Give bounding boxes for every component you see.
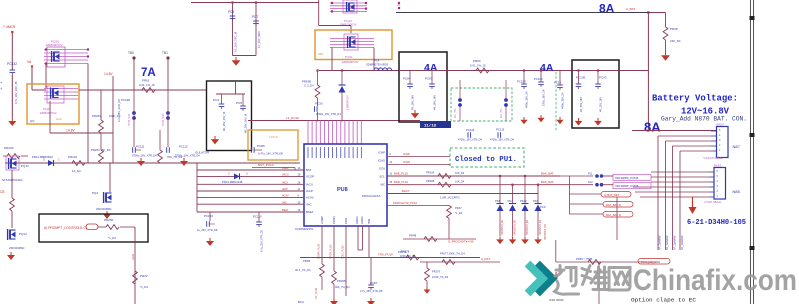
IC name PU8 [337, 187, 348, 193]
svg-text:NF_DaN/AW: NF_DaN/AW [666, 235, 669, 250]
label regulator [195, 151, 210, 155]
svg-text:NF_DaN/AW: NF_DaN/AW [659, 235, 662, 250]
svg-text:4.7u_16V_ACR_D5: 4.7u_16V_ACR_D5 [117, 99, 121, 122]
svg-text:PU8: PU8 [337, 187, 348, 193]
ground [520, 117, 527, 124]
diode PD12 [520, 175, 529, 236]
ground [411, 110, 419, 118]
wire [109, 163, 111, 192]
svg-text:HDD BMMP_OUT1B: HDD BMMP_OUT1B [615, 185, 639, 188]
svg-text:PC106: PC106 [534, 77, 543, 81]
svg-text:VAC: VAC [282, 201, 287, 204]
watermark xunwei glyphs [555, 266, 631, 295]
svg-text:1R0u_16V_D4: 1R0u_16V_D4 [543, 89, 546, 106]
svg-text:EMB09P03V: EMB09P03V [342, 60, 359, 64]
wire [197, 209, 304, 212]
svg-text:BAK_BAT 4): BAK_BAT 4) [606, 213, 621, 217]
wire [619, 70, 648, 72]
wire [32, 68, 46, 90]
resistor PR62 [139, 79, 155, 93]
svg-text:PC5: PC5 [236, 101, 242, 105]
net VCCRTG [440, 196, 461, 200]
IC pin name texts top [308, 147, 361, 158]
label Gary_Add [661, 116, 747, 123]
svg-text:PR208: PR208 [426, 179, 435, 183]
ground [537, 115, 544, 122]
IC bottom pin labels [320, 216, 371, 224]
wire BST [252, 168, 295, 171]
svg-text:PR38: PR38 [670, 27, 678, 31]
svg-text:PQ11: PQ11 [345, 55, 353, 59]
svg-text:2SK3018SD: 2SK3018SD [96, 207, 111, 211]
svg-text:VBBP: VBBP [282, 167, 289, 170]
ground [575, 118, 583, 126]
wire [11, 33, 13, 70]
svg-text:*1_D4: *1_D4 [140, 285, 148, 289]
net TRU_PU10 [378, 253, 393, 257]
svg-text:ACN: ACN [131, 254, 135, 260]
capacitor PC16 [554, 71, 565, 110]
svg-text:BST: BST [306, 168, 312, 172]
wire [333, 226, 335, 271]
watermark chevron logo [528, 264, 553, 294]
wire [560, 184, 613, 186]
svg-text:IACP: IACP [282, 188, 288, 191]
wire [647, 13, 649, 131]
resistor PR242 [68, 155, 85, 173]
svg-text:PL4: PL4 [374, 59, 380, 63]
svg-text:PC112: PC112 [179, 145, 188, 149]
IC right pin labels [362, 151, 386, 198]
svg-text:10K_D4: 10K_D4 [455, 171, 465, 175]
svg-text:4R8u_16V_D4: 4R8u_16V_D4 [562, 92, 565, 109]
svg-text:C: C [58, 158, 60, 162]
resistor PR59 [576, 257, 601, 264]
capacitor PC105 [576, 71, 586, 112]
resistor PR48 [403, 234, 476, 244]
svg-text:9uF_H5L: 9uF_H5L [454, 107, 457, 118]
svg-text:PQ13: PQ13 [21, 164, 29, 168]
svg-text:Chinafix.com: Chinafix.com [633, 264, 797, 297]
svg-text:10K_D4: 10K_D4 [455, 180, 465, 184]
svg-text:30K_7%_D4: 30K_7%_D4 [335, 285, 350, 289]
ground [521, 237, 529, 245]
net 14.8V [104, 72, 113, 76]
wire PROCHOT [387, 201, 446, 206]
inductor PL2 [588, 180, 603, 187]
svg-text:8A: 8A [644, 120, 661, 135]
svg-text:PFB3_9uH: PFB3_9uH [128, 114, 131, 126]
svg-text:PR63B: PR63B [302, 80, 311, 84]
resistor PR63B [302, 69, 320, 106]
wire 8A rail [396, 11, 650, 13]
svg-text:PR243: PR243 [4, 146, 14, 150]
svg-text:ICHG: ICHG [403, 160, 411, 164]
svg-text:PR84: PR84 [473, 59, 481, 63]
svg-text:VCOP: VCOP [306, 175, 314, 179]
svg-text:PR47: PR47 [455, 206, 462, 210]
wire [616, 197, 618, 240]
svg-text:PC105: PC105 [576, 76, 586, 80]
net A_BAT [626, 7, 635, 11]
wire BHE [387, 172, 560, 177]
wire [197, 167, 304, 170]
svg-text:PR22: PR22 [140, 274, 148, 278]
svg-text:NF_DaN/AW: NF_DaN/AW [674, 235, 677, 250]
label COMSEN/PG [295, 227, 314, 231]
svg-text:HAHB/SH_6R: HAHB/SH_6R [526, 220, 529, 235]
wire [197, 201, 304, 204]
wire [197, 195, 304, 198]
ferrite bead PFB4 [162, 90, 170, 147]
svg-text:6-21-D34H0-105: 6-21-D34H0-105 [687, 219, 746, 227]
svg-text:SCA: SCA [379, 167, 385, 171]
svg-text:PD7: PD7 [508, 199, 514, 203]
capacitor PC114 [458, 128, 482, 142]
wire ICHP [387, 152, 450, 157]
transistor PQ26 [44, 40, 89, 68]
boxed net HDD BMMP_OUT1B 2 [613, 183, 651, 189]
label GSD [549, 298, 564, 302]
resistor PR176 [398, 250, 419, 260]
svg-text:HDD BMMP_OUT1B: HDD BMMP_OUT1B [615, 177, 639, 180]
svg-text:PC114: PC114 [466, 128, 475, 132]
svg-text:BST_PU10: BST_PU10 [258, 163, 274, 167]
svg-text:PROGCHGTA: PROGCHGTA [362, 194, 380, 198]
svg-text:13714: 13714 [269, 135, 278, 139]
wire [640, 196, 709, 198]
svg-text:EMB09P03V: EMB09P03V [46, 43, 63, 47]
label BCA [298, 300, 304, 304]
transistor PQ11 [318, 34, 374, 64]
svg-text:GULATOR: GULATOR [195, 151, 210, 155]
svg-text:COMP: COMP [320, 216, 324, 224]
net PDIS_PU10 [342, 245, 345, 259]
wire [319, 0, 351, 33]
svg-text:4A: 4A [424, 62, 438, 74]
svg-text:PC16: PC16 [554, 81, 561, 85]
svg-text:MC: MC [381, 183, 386, 187]
boxed net HDD BMMP_OUT1B [613, 174, 651, 180]
capacitor PC133 [197, 212, 218, 232]
svg-text:PC133: PC133 [204, 214, 213, 218]
svg-text:7.4MCR: 7.4MCR [3, 25, 16, 29]
svg-text:BAK_BAT: BAK_BAT [541, 172, 554, 176]
svg-text:N85: N85 [733, 189, 741, 194]
connector JBAT2 N85 [704, 164, 741, 205]
wire [197, 174, 304, 177]
wire 4A rail [447, 70, 572, 72]
ground [661, 52, 670, 61]
svg-text:HAHB/SH_6R: HAHB/SH_6R [501, 220, 504, 235]
diode PD14 [222, 173, 248, 185]
arrow to sheet [689, 197, 697, 214]
capacitor PC84 [399, 71, 447, 111]
svg-text:Gary_Add N870 BAT. CON.: Gary_Add N870 BAT. CON. [661, 116, 747, 123]
svg-text:9700u_16V_XTR_D4: 9700u_16V_XTR_D4 [132, 154, 157, 158]
svg-text:TB1: TB1 [162, 51, 168, 55]
svg-text:ICHP: ICHP [378, 151, 385, 155]
svg-text:HB1: HB1 [318, 52, 324, 56]
wire [11, 75, 13, 118]
net BAK_BAT oval 1 [603, 202, 633, 208]
net ACN [131, 254, 135, 260]
bootstrap block outline [248, 130, 298, 160]
svg-text:BHCT: BHCT [402, 189, 410, 193]
svg-text:PD4: PD4 [533, 199, 539, 203]
svg-text:BAK_BAT: BAK_BAT [541, 180, 554, 184]
svg-text:2SK3018SD: 2SK3018SD [9, 246, 24, 250]
capacitor PC30 [315, 102, 342, 122]
svg-text:HO: HO [30, 119, 35, 123]
svg-text:BSET: BSET [306, 210, 314, 214]
svg-text:4.7u_16V_16V_JB: 4.7u_16V_16V_JB [14, 81, 18, 104]
resistor PR22 [133, 271, 149, 289]
net BAT_PACK labels [659, 235, 685, 250]
svg-text:7A: 7A [141, 67, 156, 79]
resistor PR47 [446, 206, 463, 240]
high-side FET block outline [315, 30, 392, 60]
capacitor PC5 [236, 101, 248, 133]
svg-text:*CHKOP-5BA&L: *CHKOP-5BA&L [703, 156, 723, 160]
testpoint TB1 [162, 51, 170, 90]
svg-text:0.01_1%_J5: 0.01_1%_J5 [139, 83, 155, 87]
resistor PR250 [98, 218, 135, 240]
svg-text:PC4: PC4 [213, 98, 219, 102]
svg-text:COMSEN/PG: COMSEN/PG [295, 227, 314, 231]
control block outline [39, 214, 148, 242]
ground [103, 211, 111, 219]
svg-text:BCA: BCA [298, 300, 304, 304]
wire bus drop [196, 163, 198, 212]
label 6-21-D34H0-105 [687, 219, 746, 227]
sense filter dashed box [451, 88, 512, 121]
green dashed line [555, 72, 557, 130]
svg-text:14.8V: 14.8V [104, 72, 113, 76]
svg-text:PDIS_PU10: PDIS_PU10 [342, 245, 345, 259]
svg-text:ICHP: ICHP [403, 152, 410, 156]
svg-text:14.8V: 14.8V [66, 129, 75, 133]
svg-text:PC111: PC111 [136, 145, 145, 149]
charger FET block outline [27, 84, 79, 124]
inductor PL4 [366, 59, 392, 71]
ground [594, 118, 602, 126]
svg-text:30.1_7%_D4: 30.1_7%_D4 [295, 268, 311, 272]
wire ISW net [300, 257, 480, 259]
svg-text:PC198: PC198 [121, 98, 130, 102]
svg-text:GND3: GND3 [355, 216, 359, 224]
svg-text:PR263: PR263 [92, 114, 101, 118]
IC left pin labels [306, 168, 314, 214]
svg-text:Option clape to EC: Option clape to EC [631, 297, 697, 304]
svg-text:4700u_16V_XTR_D4: 4700u_16V_XTR_D4 [458, 139, 482, 142]
wire [233, 3, 257, 56]
svg-text:EMB09P03V: EMB09P03V [346, 95, 350, 110]
inductor PL1 [588, 172, 603, 178]
svg-text:IACP: IACP [306, 189, 313, 193]
label 4A right [540, 62, 554, 74]
resistor PR243 [3, 146, 28, 158]
wire [658, 136, 711, 250]
svg-text:TRU_PU10: TRU_PU10 [378, 253, 393, 257]
node 7.4MCR [3, 25, 16, 33]
svg-text:PR242: PR242 [68, 155, 78, 159]
svg-text:SDMP-0730 6R3S: SDMP-0730 6R3S [366, 63, 388, 67]
wire [332, 48, 374, 71]
closed-to-PU1 dashed box [450, 148, 524, 167]
capacitor PC86 [252, 144, 284, 156]
resistor PR246 [158, 130, 183, 163]
ground [7, 252, 15, 260]
svg-text:C: C [228, 173, 230, 176]
svg-text:L1_PU10: L1_PU10 [286, 116, 299, 120]
connector JBAT1 N87 [703, 123, 741, 161]
svg-text:VAC: VAC [306, 202, 312, 206]
wire [197, 182, 304, 185]
svg-text:BAK_BAT 4): BAK_BAT 4) [606, 203, 621, 207]
polarity marks [0, 80, 3, 91]
svg-text:Closed to PU1.: Closed to PU1. [455, 156, 517, 164]
svg-text:9uF_H5L: 9uF_H5L [500, 107, 503, 118]
svg-text:PR205: PR205 [337, 279, 346, 283]
svg-text:PR62: PR62 [142, 79, 150, 83]
svg-text:EMB09P03V: EMB09P03V [40, 111, 57, 115]
resistor PR179 [425, 262, 449, 287]
svg-text:VACU: VACU [282, 174, 289, 177]
net tern_pak oval [638, 259, 670, 265]
svg-text:Battery Voltage:: Battery Voltage: [652, 93, 738, 104]
svg-text:0.1_16V_YFC_M: 0.1_16V_YFC_M [234, 32, 238, 52]
svg-text:PDIS: PDIS [344, 218, 348, 224]
capacitor PC7 [252, 15, 261, 48]
svg-text:PL1: PL1 [588, 172, 593, 176]
diode PD11 [32, 155, 60, 166]
capacitor PC104 [517, 69, 529, 108]
node VA [27, 60, 33, 68]
svg-text:PD12: PD12 [520, 199, 527, 203]
wire [368, 226, 370, 258]
svg-text:PC7: PC7 [252, 15, 258, 19]
svg-text:PR177 100K_7%_D4: PR177 100K_7%_D4 [440, 252, 465, 256]
svg-text:PC30: PC30 [315, 102, 323, 106]
watermark Chinafix.com [633, 264, 797, 297]
svg-text:VA: VA [27, 60, 32, 64]
svg-text:HAHB/SH_6R: HAHB/SH_6R [514, 220, 517, 235]
ferrite bead PFB1 [454, 80, 462, 121]
svg-text:4700u_16V_XTR_D4: 4700u_16V_XTR_D4 [490, 139, 514, 142]
svg-text:1u_25V_XTR_D8: 1u_25V_XTR_D8 [197, 228, 218, 232]
svg-text:4R8u_16V_D4: 4R8u_16V_D4 [526, 91, 529, 108]
svg-text:4.7u_25V_XTR_D8: 4.7u_25V_XTR_D8 [261, 230, 264, 252]
wire BHCT [387, 189, 538, 194]
diode PD6 [339, 69, 350, 121]
wire battery rail [632, 129, 717, 131]
ground [552, 272, 559, 279]
resistor PR264 [91, 133, 111, 163]
resistor PR263 [92, 90, 121, 133]
ground [534, 237, 542, 245]
svg-text:0.47u_16V_XTR_D8: 0.47u_16V_XTR_D8 [258, 152, 283, 156]
net PROMPT_CONTROLB [44, 224, 98, 230]
svg-text:24.8K_7%_D4: 24.8K_7%_D4 [432, 276, 449, 279]
net CP_PU10 [315, 287, 318, 299]
svg-text:BHE_PL19: BHE_PL19 [394, 172, 408, 176]
resistor PR65 [295, 259, 324, 290]
wire [345, 226, 347, 296]
svg-text:4R_25V_16V: 4R_25V_16V [600, 97, 603, 112]
ground [424, 287, 431, 294]
wire phase rail [319, 70, 447, 72]
svg-text:PR106: PR106 [426, 171, 435, 175]
label 13714 [269, 135, 278, 139]
svg-text:GSD 909W: GSD 909W [549, 298, 564, 302]
diode PD8 [495, 175, 504, 236]
svg-text:PC104: PC104 [517, 80, 526, 84]
capacitor PC116 [490, 128, 514, 142]
svg-text:NF_DaN/AW: NF_DaN/AW [681, 235, 684, 250]
svg-text:4R_16V_16V: 4R_16V_16V [434, 95, 437, 110]
svg-text:4R_25V_16V: 4R_25V_16V [580, 97, 583, 112]
net L1_PU10 [286, 116, 299, 120]
ground [509, 237, 517, 245]
transistor PQ14 [8, 229, 27, 250]
resistor PR106 [426, 171, 465, 179]
wire 7A rail [79, 89, 207, 91]
svg-text:11/18: 11/18 [424, 124, 437, 129]
capacitor PC132 [7, 62, 18, 104]
wire BHD [387, 180, 560, 185]
svg-text:9700u_16V_XTR_D4: 9700u_16V_XTR_D4 [316, 112, 341, 116]
svg-text:PC9: PC9 [540, 205, 546, 209]
svg-text:C*H0P-5BA&L: C*H0P-5BA&L [704, 200, 722, 204]
net CB [0, 190, 5, 194]
svg-text:PD14 MBG4148: PD14 MBG4148 [222, 180, 243, 184]
ferrite bead PFB3 [128, 90, 136, 147]
wire [651, 176, 709, 178]
svg-text:GND4: GND4 [360, 216, 364, 224]
capacitor PC4 [213, 98, 226, 131]
wire [666, 141, 712, 250]
svg-text:IACU: IACU [282, 182, 288, 185]
node 2S [397, 2, 401, 9]
svg-text:CB: CB [0, 190, 5, 194]
wire [680, 151, 711, 250]
svg-text:A) BAT_DET: A) BAT_DET [604, 193, 620, 197]
svg-text:D: D [43, 158, 45, 162]
svg-text:HAHB/SH_6R: HAHB/SH_6R [539, 220, 542, 235]
battery cap block outline [572, 60, 619, 128]
svg-text:BAD2: BAD2 [714, 164, 722, 168]
svg-text:4R_16V_16V: 4R_16V_16V [412, 95, 415, 110]
svg-text:ICHG: ICHG [378, 159, 386, 163]
svg-text:*1_D4: *1_D4 [108, 236, 116, 240]
label 8A battery [644, 120, 661, 135]
resistor PR84 [470, 59, 489, 73]
capacitor PC8 [228, 10, 238, 52]
ground [137, 158, 145, 166]
svg-text:4R_16V_16V_M: 4R_16V_16V_M [222, 112, 226, 131]
input cap block outline [207, 81, 252, 151]
wire L1 to IC pins [308, 121, 361, 145]
svg-text:ISW: ISW [367, 218, 371, 224]
net PRSN_PU10 [330, 244, 333, 259]
wire ICHG [387, 160, 450, 165]
svg-text:PC8: PC8 [228, 10, 234, 14]
svg-text:BSET: BSET [282, 209, 289, 212]
capacitor PC9 [540, 205, 547, 240]
svg-text:PL2: PL2 [588, 180, 593, 184]
label Closed to PU1 [455, 156, 517, 164]
